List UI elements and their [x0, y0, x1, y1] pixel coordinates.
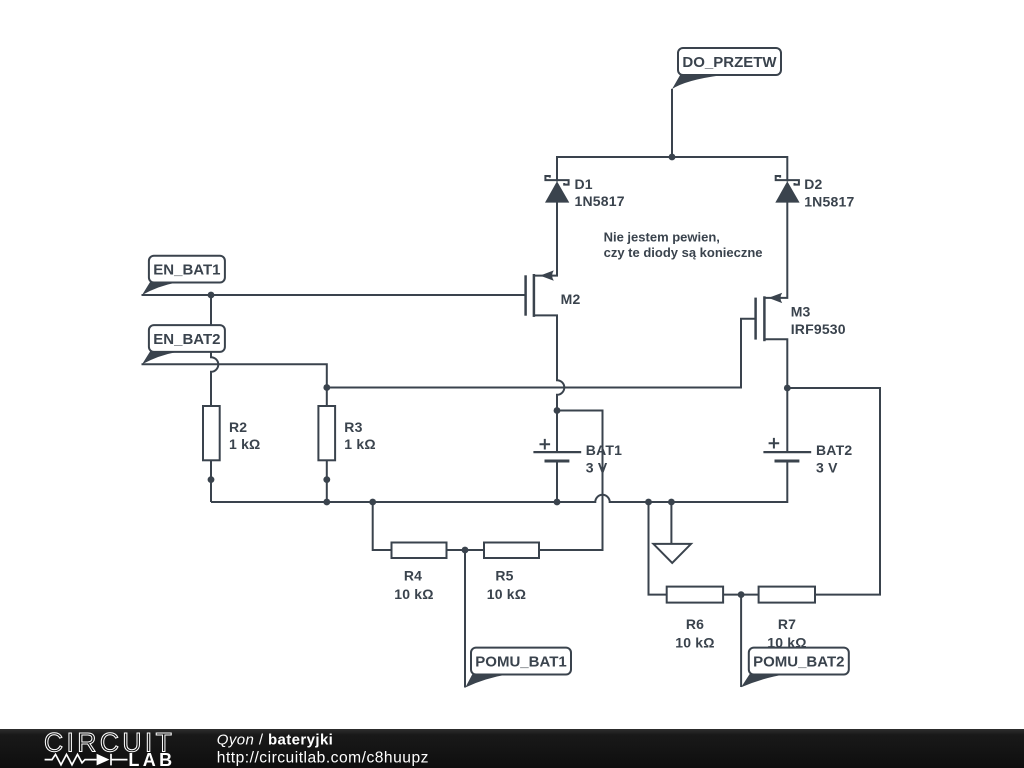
battery BAT2 long plate	[763, 451, 811, 453]
transistor M2 gate bar	[524, 275, 527, 315]
svg-text:10 kΩ: 10 kΩ	[675, 635, 714, 651]
wire BAT2 top lead	[786, 388, 788, 451]
wire R6-R7 link	[723, 594, 759, 596]
node at R3 bottom	[323, 476, 330, 483]
node on bottom rail at R4 branch	[369, 499, 376, 506]
svg-text:BAT2: BAT2	[816, 442, 852, 458]
net flag EN_BAT2	[142, 325, 225, 364]
svg-text:R4: R4	[404, 568, 422, 584]
svg-text:M2: M2	[561, 291, 581, 307]
wire ground lead	[670, 502, 672, 544]
node between R4 and R5	[462, 547, 469, 554]
svg-text:czy te diody są konieczne: czy te diody są konieczne	[604, 245, 763, 260]
svg-text:1 kΩ: 1 kΩ	[229, 436, 261, 452]
svg-text:http://circuitlab.com/c8huupz: http://circuitlab.com/c8huupz	[217, 750, 429, 767]
transistor M3 channel bar	[763, 296, 766, 341]
wire EN_BAT1 to M2 gate	[142, 294, 526, 296]
svg-text:R7: R7	[778, 616, 796, 632]
diode D2 schottky cathode bar	[776, 176, 799, 185]
svg-text:POMU_BAT1: POMU_BAT1	[475, 654, 566, 671]
svg-text:BAT1: BAT1	[586, 442, 622, 458]
svg-text:10 kΩ: 10 kΩ	[487, 586, 526, 602]
svg-text:EN_BAT1: EN_BAT1	[153, 262, 220, 279]
svg-text:3 V: 3 V	[816, 459, 838, 475]
svg-text:R3: R3	[344, 419, 362, 435]
svg-text:POMU_BAT2: POMU_BAT2	[753, 654, 844, 671]
svg-text:1N5817: 1N5817	[575, 193, 625, 209]
battery BAT2 short plate	[775, 460, 800, 463]
wire EN_BAT2 to R3 top	[142, 364, 327, 406]
svg-text:LAB: LAB	[128, 750, 175, 768]
svg-text:Qyon / bateryjki: Qyon / bateryjki	[217, 732, 333, 749]
wire R3 bottom lead	[326, 461, 328, 503]
svg-text:1 kΩ: 1 kΩ	[344, 436, 376, 452]
battery BAT1 long plate	[533, 451, 581, 453]
node on bottom rail at R3	[323, 499, 330, 506]
net flag EN_BAT1	[142, 256, 225, 295]
wire node to BAT1 top	[556, 411, 558, 452]
svg-text:10 kΩ: 10 kΩ	[394, 586, 433, 602]
ground	[653, 544, 691, 563]
node at EN_BAT1 wire	[208, 292, 215, 299]
footer logo zigzag and diode	[45, 754, 128, 766]
svg-text:IRF9530: IRF9530	[791, 321, 846, 337]
diode D1 schottky cathode bar	[545, 176, 568, 185]
wire DO_PRZETW drop	[671, 89, 673, 157]
footer bar	[0, 729, 1024, 768]
svg-text:3 V: 3 V	[586, 459, 608, 475]
wire branch down to R6	[649, 502, 667, 595]
transistor M3 gate bar	[754, 298, 757, 340]
node between R6 and R7	[738, 591, 745, 598]
wire M3 source to node	[764, 339, 787, 388]
resistor R2	[203, 406, 220, 460]
svg-text:DO_PRZETW: DO_PRZETW	[682, 54, 777, 71]
svg-text:M3: M3	[791, 304, 811, 320]
svg-text:R5: R5	[495, 568, 513, 584]
node at R2 bottom	[208, 476, 215, 483]
svg-text:EN_BAT2: EN_BAT2	[153, 331, 220, 348]
node at R3 top rail	[323, 384, 330, 391]
wire EN_BAT1 junction down to R2 (hop over EN_BAT2 wire)	[211, 295, 218, 406]
net flag POMU_BAT2	[741, 648, 849, 688]
wire POMU_BAT1 drop	[464, 550, 466, 688]
resistor R7	[759, 587, 815, 603]
node junction dots	[208, 154, 791, 598]
diode D2 triangle	[775, 181, 799, 202]
diode D1 triangle	[545, 181, 569, 202]
wire R4-R5 link	[447, 549, 485, 551]
node on bottom rail at ground	[668, 499, 675, 506]
node at M3 source	[784, 385, 791, 392]
wire R2 bottom lead	[210, 461, 212, 503]
node at DO_PRZETW rail	[669, 154, 676, 161]
wire BAT1 bottom	[556, 463, 558, 503]
wire node right and down to R5	[539, 411, 603, 551]
resistor R6	[667, 587, 723, 603]
svg-text:Nie jestem pewien,: Nie jestem pewien,	[604, 230, 720, 245]
battery BAT2 plus sign	[769, 438, 780, 449]
net flag DO_PRZETW	[672, 48, 781, 89]
wire branch down to R4	[373, 502, 392, 550]
svg-text:R6: R6	[686, 616, 704, 632]
svg-text:D1: D1	[575, 176, 593, 192]
svg-text:D2: D2	[804, 176, 822, 192]
node on bottom rail at R6 branch	[645, 499, 652, 506]
svg-text:1N5817: 1N5817	[804, 194, 854, 210]
wire D2 anode to M3 drain	[764, 202, 787, 298]
resistor R4	[392, 543, 447, 559]
battery BAT1 short plate	[545, 460, 570, 463]
transistor M3 arrow	[768, 293, 782, 303]
wire top rail with diode drops	[557, 157, 787, 182]
resistor R3	[318, 406, 335, 460]
wire M2 source down (hop over mid rail)	[534, 315, 564, 410]
node at M2 source / BAT1	[554, 407, 561, 414]
wire D1 anode to M2 drain	[534, 202, 557, 276]
wire POMU_BAT2 drop	[740, 595, 742, 687]
resistor R5	[484, 543, 539, 559]
node on bottom rail at BAT1	[554, 499, 561, 506]
transistor M2 channel bar	[533, 274, 536, 317]
transistor M2 arrow	[540, 270, 554, 280]
wire bottom rail (hop over R5 drop) to BAT2 bottom	[211, 463, 787, 503]
svg-text:R2: R2	[229, 419, 247, 435]
wire mid rail to M3 gate	[327, 319, 756, 388]
battery BAT1 plus sign	[540, 439, 551, 450]
net flag POMU_BAT1	[465, 648, 571, 688]
wire right loop to R7	[787, 388, 880, 595]
